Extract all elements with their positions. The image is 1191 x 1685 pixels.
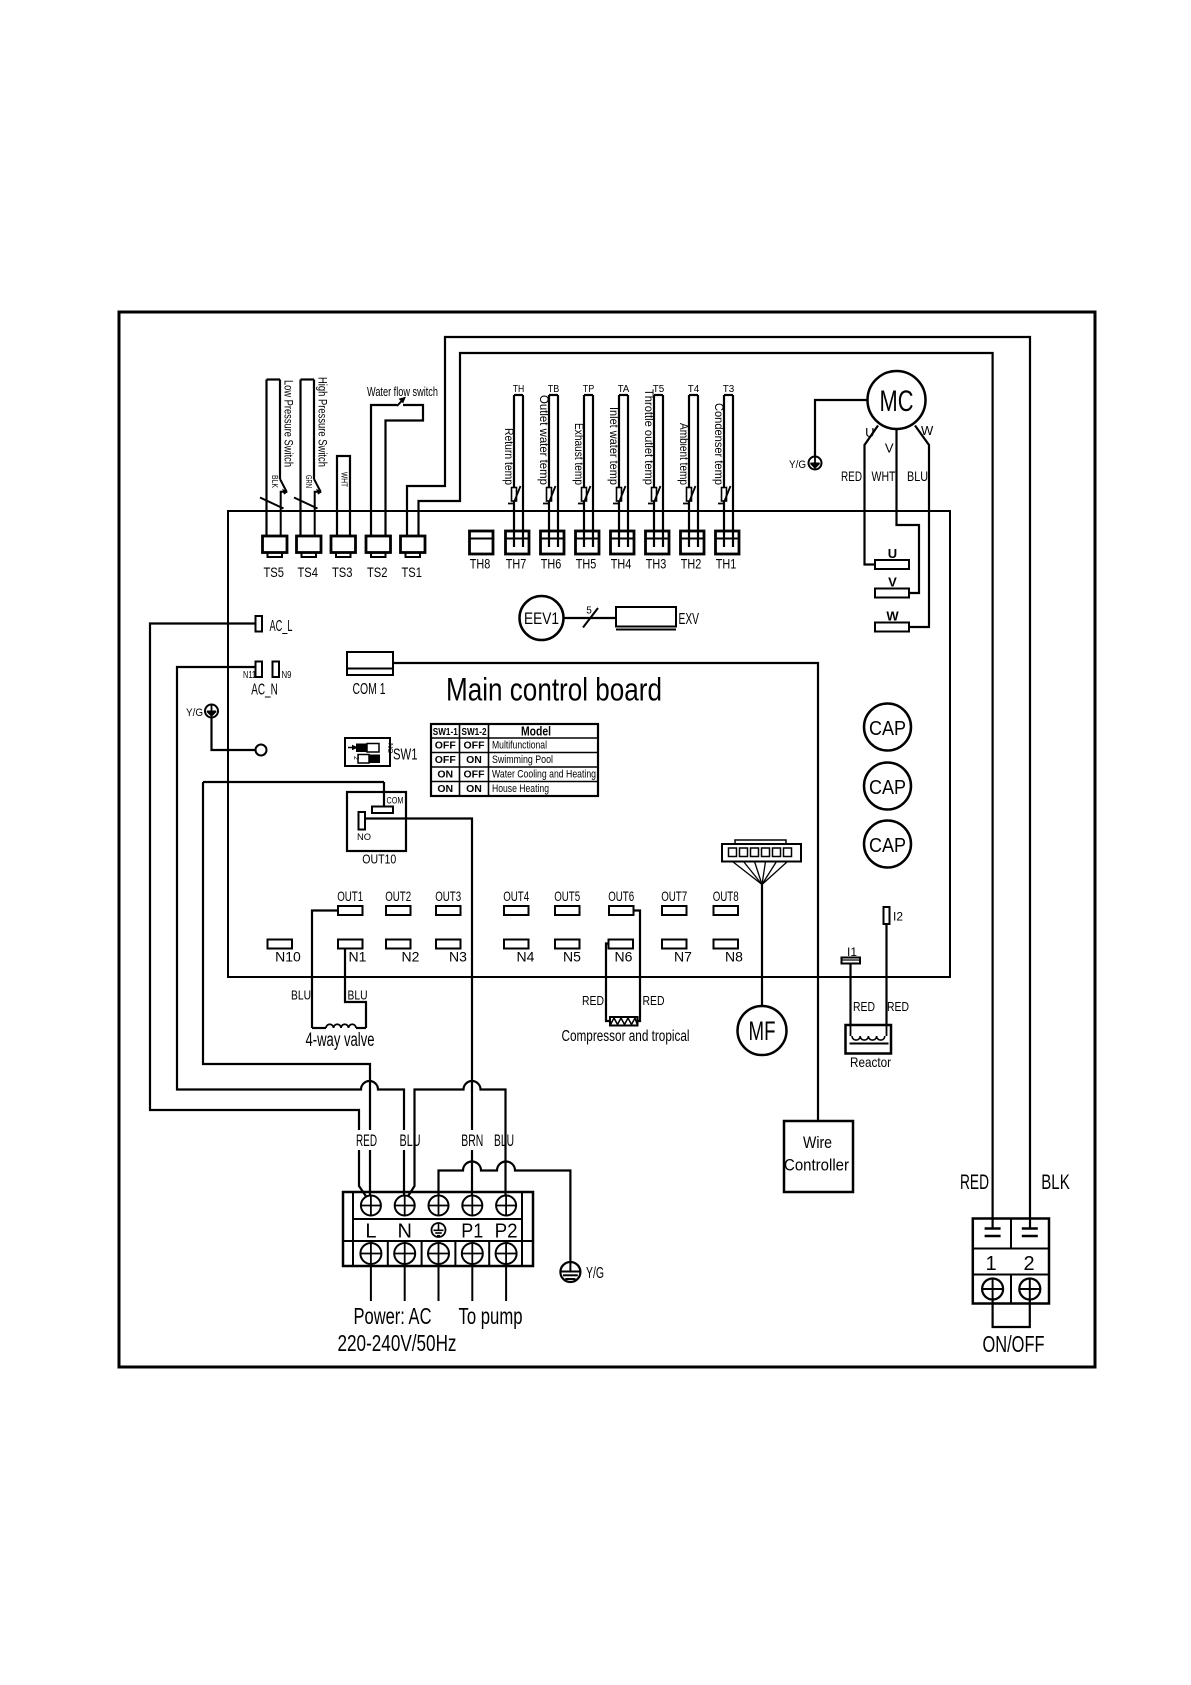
svg-text:SW1-2: SW1-2 <box>462 727 487 738</box>
svg-text:N5: N5 <box>563 949 581 965</box>
svg-text:BLK: BLK <box>270 475 279 489</box>
svg-text:Throttle outlet temp: Throttle outlet temp <box>642 389 654 485</box>
svg-text:OUT8: OUT8 <box>713 888 739 904</box>
svg-text:Water Cooling and Heating: Water Cooling and Heating <box>492 769 596 781</box>
svg-text:Ambient temp: Ambient temp <box>677 423 689 485</box>
svg-text:U: U <box>865 425 874 440</box>
svg-text:ON: ON <box>437 783 453 795</box>
svg-text:Exhaust temp: Exhaust temp <box>572 423 584 485</box>
svg-text:Power: AC: Power: AC <box>354 1303 432 1329</box>
svg-text:AC_L: AC_L <box>270 618 293 635</box>
svg-text:TH3: TH3 <box>646 556 667 572</box>
svg-text:TS5: TS5 <box>263 564 284 580</box>
svg-text:Reactor: Reactor <box>850 1054 891 1070</box>
svg-text:GRN: GRN <box>304 475 313 488</box>
svg-text:2: 2 <box>1023 1253 1034 1275</box>
svg-text:P1: P1 <box>461 1221 483 1243</box>
svg-text:OUT10: OUT10 <box>362 853 396 867</box>
svg-text:Swimming Pool: Swimming Pool <box>492 754 553 766</box>
svg-text:RED: RED <box>582 994 604 1008</box>
svg-text:NO: NO <box>386 743 393 754</box>
svg-text:House Heating: House Heating <box>492 783 549 795</box>
svg-text:OUT7: OUT7 <box>661 888 687 904</box>
svg-text:High Pressure Switch: High Pressure Switch <box>316 377 328 467</box>
svg-text:Main control board: Main control board <box>446 672 662 708</box>
svg-text:COM 1: COM 1 <box>353 681 386 698</box>
svg-text:TB: TB <box>548 384 560 395</box>
svg-text:Multifunctional: Multifunctional <box>492 740 547 752</box>
svg-text:N4: N4 <box>517 949 535 965</box>
svg-text:T3: T3 <box>723 384 735 395</box>
svg-text:RED: RED <box>643 994 665 1008</box>
svg-text:N6: N6 <box>615 949 633 965</box>
svg-text:I2: I2 <box>893 910 903 924</box>
svg-text:OUT3: OUT3 <box>435 888 461 904</box>
svg-text:Wire: Wire <box>803 1133 832 1152</box>
svg-text:OUT1: OUT1 <box>337 888 363 904</box>
svg-text:220-240V/50Hz: 220-240V/50Hz <box>338 1330 457 1356</box>
svg-text:AC_N: AC_N <box>251 682 278 699</box>
svg-text:N1: N1 <box>349 949 367 965</box>
svg-text:U: U <box>888 546 897 561</box>
svg-text:OUT5: OUT5 <box>554 888 580 904</box>
svg-text:TH1: TH1 <box>716 556 737 572</box>
svg-text:TS4: TS4 <box>297 564 318 580</box>
svg-text:Inlet water temp: Inlet water temp <box>607 407 619 485</box>
svg-text:N2: N2 <box>402 949 420 965</box>
svg-text:OUT6: OUT6 <box>608 888 634 904</box>
svg-text:TH2: TH2 <box>681 556 702 572</box>
svg-text:BLU: BLU <box>348 988 368 1003</box>
svg-text:WHT: WHT <box>340 472 349 487</box>
svg-text:Y/G: Y/G <box>186 707 203 719</box>
svg-text:RED: RED <box>853 1000 875 1014</box>
svg-text:MF: MF <box>749 1016 776 1046</box>
svg-text:ON: ON <box>437 769 453 781</box>
svg-text:TH6: TH6 <box>541 556 562 572</box>
svg-text:1: 1 <box>985 1253 996 1275</box>
svg-text:TH8: TH8 <box>470 556 491 572</box>
svg-text:Condenser temp: Condenser temp <box>712 403 724 485</box>
svg-text:CAP: CAP <box>869 835 906 857</box>
svg-text:OUT2: OUT2 <box>385 888 411 904</box>
svg-text:SW1-1: SW1-1 <box>433 727 458 738</box>
svg-text:N8: N8 <box>725 949 743 965</box>
svg-text:Low Pressure Switch: Low Pressure Switch <box>282 380 294 467</box>
svg-text:TP: TP <box>583 384 595 395</box>
svg-text:TS2: TS2 <box>367 564 388 580</box>
svg-text:OUT4: OUT4 <box>503 888 529 904</box>
svg-text:EEV1: EEV1 <box>524 609 559 628</box>
svg-text:Water flow switch: Water flow switch <box>367 385 438 399</box>
svg-text:To pump: To pump <box>459 1303 523 1329</box>
svg-text:TS3: TS3 <box>332 564 353 580</box>
svg-text:CAP: CAP <box>869 718 906 740</box>
svg-text:W: W <box>886 609 899 624</box>
svg-text:COM: COM <box>387 796 404 807</box>
svg-text:ON/OFF: ON/OFF <box>983 1331 1045 1357</box>
svg-text:OFF: OFF <box>435 754 457 766</box>
svg-text:TH: TH <box>513 384 525 395</box>
svg-text:TH5: TH5 <box>576 556 597 572</box>
svg-text:Outlet water temp: Outlet water temp <box>537 395 549 485</box>
svg-text:BLU: BLU <box>494 1132 514 1150</box>
svg-text:RED: RED <box>356 1132 377 1150</box>
svg-text:N: N <box>397 1221 411 1243</box>
svg-text:N10: N10 <box>275 949 301 965</box>
svg-text:WHT: WHT <box>872 468 896 484</box>
svg-text:N11: N11 <box>243 670 256 681</box>
svg-text:5: 5 <box>586 606 592 617</box>
svg-text:Compressor and tropical: Compressor and tropical <box>562 1028 690 1045</box>
svg-text:V: V <box>885 441 894 456</box>
svg-text:V: V <box>888 575 897 590</box>
svg-text:T4: T4 <box>688 384 700 395</box>
svg-text:CAP: CAP <box>869 777 906 799</box>
svg-text:Y/G: Y/G <box>789 459 806 471</box>
svg-text:SW1: SW1 <box>393 747 418 764</box>
svg-text:BLU: BLU <box>291 988 311 1003</box>
svg-text:ON: ON <box>466 754 482 766</box>
svg-text:ON: ON <box>466 783 482 795</box>
svg-text:OFF: OFF <box>464 769 486 781</box>
svg-text:EXV: EXV <box>679 611 700 628</box>
svg-text:BLK: BLK <box>1041 1170 1070 1194</box>
svg-text:4-way valve: 4-way valve <box>306 1030 375 1051</box>
svg-text:RED: RED <box>960 1170 989 1194</box>
svg-text:Model: Model <box>521 724 551 739</box>
svg-text:Controller: Controller <box>784 1156 849 1175</box>
svg-text:BLU: BLU <box>400 1132 421 1150</box>
svg-text:RED: RED <box>841 468 862 484</box>
svg-text:N7: N7 <box>674 949 692 965</box>
svg-text:2: 2 <box>352 756 359 760</box>
svg-text:NO: NO <box>357 832 371 843</box>
svg-text:BLU: BLU <box>907 468 928 484</box>
svg-text:MC: MC <box>880 385 914 418</box>
svg-text:Return temp: Return temp <box>502 428 514 485</box>
svg-text:TA: TA <box>618 384 630 395</box>
svg-text:W: W <box>921 423 934 438</box>
svg-text:L: L <box>365 1221 376 1243</box>
svg-text:TH7: TH7 <box>506 556 527 572</box>
svg-text:N9: N9 <box>282 670 292 681</box>
svg-text:RED: RED <box>887 1000 909 1014</box>
svg-text:BRN: BRN <box>461 1132 483 1150</box>
svg-text:OFF: OFF <box>435 740 457 752</box>
svg-text:TH4: TH4 <box>611 556 632 572</box>
svg-text:Y/G: Y/G <box>586 1265 604 1282</box>
svg-text:OFF: OFF <box>464 740 486 752</box>
svg-text:TS1: TS1 <box>401 564 422 580</box>
svg-text:N3: N3 <box>449 949 467 965</box>
svg-text:P2: P2 <box>495 1221 518 1243</box>
